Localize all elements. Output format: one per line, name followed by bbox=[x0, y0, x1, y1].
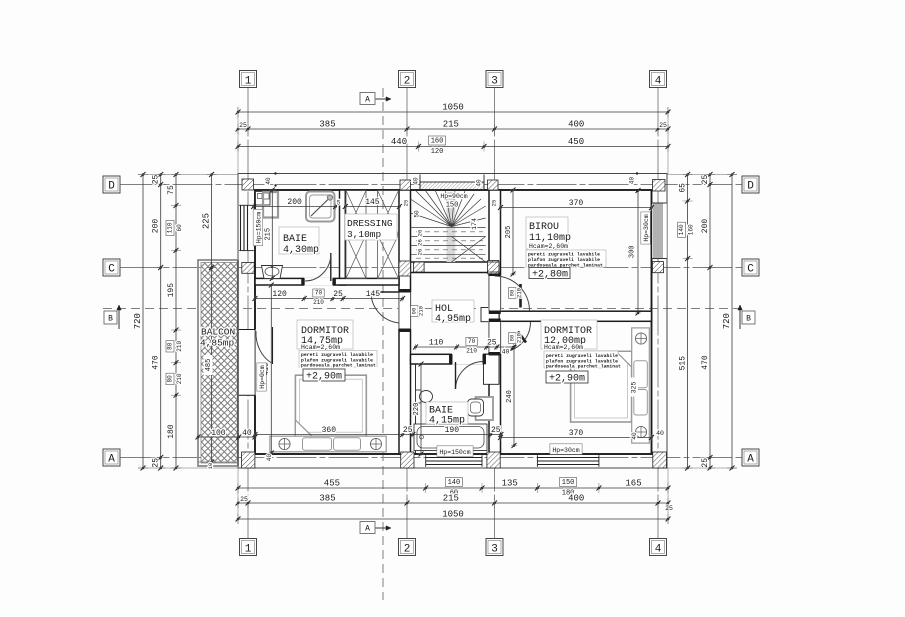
svg-text:26: 26 bbox=[417, 249, 424, 256]
svg-text:DRESSING: DRESSING bbox=[347, 218, 393, 229]
svg-text:140: 140 bbox=[448, 479, 461, 487]
svg-text:50: 50 bbox=[414, 210, 421, 218]
svg-text:40: 40 bbox=[265, 177, 272, 185]
svg-text:150: 150 bbox=[562, 479, 575, 487]
svg-text:220: 220 bbox=[413, 403, 421, 416]
svg-text:3: 3 bbox=[491, 76, 498, 88]
svg-text:25: 25 bbox=[701, 458, 710, 468]
svg-text:90: 90 bbox=[411, 308, 418, 315]
svg-text:BAIE: BAIE bbox=[283, 234, 307, 245]
svg-text:60: 60 bbox=[176, 224, 183, 232]
svg-text:400: 400 bbox=[568, 120, 584, 130]
svg-text:300: 300 bbox=[629, 245, 637, 258]
svg-text:75: 75 bbox=[167, 185, 176, 195]
svg-text:Hp=0cm: Hp=0cm bbox=[259, 365, 266, 389]
svg-text:215: 215 bbox=[264, 228, 272, 241]
svg-text:BIROU: BIROU bbox=[529, 222, 559, 233]
svg-text:470: 470 bbox=[701, 355, 710, 370]
svg-text:40: 40 bbox=[656, 430, 664, 437]
svg-text:470: 470 bbox=[152, 355, 161, 370]
svg-text:5: 5 bbox=[337, 200, 341, 207]
svg-text:110: 110 bbox=[167, 222, 174, 233]
svg-text:Hp=90cm: Hp=90cm bbox=[440, 193, 467, 200]
svg-text:165: 165 bbox=[625, 479, 641, 489]
svg-text:120: 120 bbox=[272, 290, 287, 299]
svg-text:Hp=150cm: Hp=150cm bbox=[256, 212, 263, 243]
svg-text:720: 720 bbox=[133, 313, 143, 329]
svg-text:145: 145 bbox=[365, 198, 380, 207]
svg-text:+2,90m: +2,90m bbox=[306, 372, 342, 383]
svg-text:370: 370 bbox=[569, 199, 584, 208]
svg-text:210: 210 bbox=[516, 333, 523, 343]
svg-text:120: 120 bbox=[431, 148, 444, 156]
svg-text:4: 4 bbox=[655, 76, 662, 88]
svg-text:plafon zugraveli lavabile: plafon zugraveli lavabile bbox=[546, 358, 618, 364]
svg-text:210: 210 bbox=[418, 306, 425, 316]
svg-text:Hcam=2,60m: Hcam=2,60m bbox=[529, 243, 568, 250]
svg-text:1: 1 bbox=[245, 544, 252, 556]
svg-text:25: 25 bbox=[665, 505, 673, 512]
svg-text:25: 25 bbox=[701, 175, 710, 185]
svg-text:80: 80 bbox=[509, 335, 516, 342]
svg-text:A: A bbox=[365, 525, 370, 534]
svg-text:110: 110 bbox=[429, 339, 444, 348]
svg-text:40: 40 bbox=[266, 454, 273, 462]
svg-text:210: 210 bbox=[516, 288, 523, 298]
svg-text:485: 485 bbox=[205, 359, 213, 372]
svg-text:160: 160 bbox=[431, 138, 444, 146]
svg-text:4: 4 bbox=[655, 544, 662, 556]
svg-text:25: 25 bbox=[240, 496, 248, 503]
svg-text:385: 385 bbox=[319, 120, 335, 130]
svg-text:2: 2 bbox=[404, 544, 411, 556]
svg-text:A: A bbox=[365, 96, 370, 105]
svg-text:3,10mp: 3,10mp bbox=[347, 229, 382, 240]
svg-text:+2,80m: +2,80m bbox=[532, 270, 568, 281]
svg-text:215: 215 bbox=[443, 494, 459, 504]
svg-text:400: 400 bbox=[568, 494, 584, 504]
svg-text:210: 210 bbox=[176, 341, 183, 352]
svg-text:plafon zugraveli lavabile: plafon zugraveli lavabile bbox=[528, 257, 600, 263]
svg-text:200: 200 bbox=[152, 219, 161, 234]
svg-text:D: D bbox=[747, 181, 754, 193]
svg-text:190: 190 bbox=[445, 426, 460, 435]
svg-text:210: 210 bbox=[313, 299, 324, 306]
svg-text:4,95mp: 4,95mp bbox=[435, 314, 471, 325]
svg-text:40: 40 bbox=[631, 432, 638, 440]
svg-text:Hp=30cm: Hp=30cm bbox=[552, 447, 579, 454]
svg-text:Hp=30cm: Hp=30cm bbox=[643, 214, 650, 241]
svg-text:Hcam=2,60m: Hcam=2,60m bbox=[544, 344, 583, 351]
svg-text:215: 215 bbox=[443, 120, 459, 130]
svg-text:40: 40 bbox=[242, 429, 252, 438]
svg-text:4,85mp: 4,85mp bbox=[200, 338, 235, 349]
svg-text:1050: 1050 bbox=[442, 510, 464, 520]
svg-text:+2,90m: +2,90m bbox=[549, 374, 585, 385]
svg-text:4,15mp: 4,15mp bbox=[429, 416, 465, 427]
svg-text:25: 25 bbox=[152, 175, 161, 185]
svg-text:pereti zugraveli lavabile: pereti zugraveli lavabile bbox=[301, 352, 373, 358]
svg-text:25: 25 bbox=[333, 290, 343, 299]
svg-text:B: B bbox=[108, 315, 113, 324]
svg-text:C: C bbox=[747, 264, 754, 276]
svg-text:80: 80 bbox=[509, 290, 516, 297]
svg-text:180: 180 bbox=[167, 424, 176, 439]
svg-text:195: 195 bbox=[167, 283, 176, 298]
svg-text:C: C bbox=[108, 264, 115, 276]
svg-text:25: 25 bbox=[403, 426, 413, 435]
svg-text:10: 10 bbox=[207, 463, 214, 470]
svg-text:720: 720 bbox=[722, 313, 732, 329]
svg-text:1050: 1050 bbox=[442, 103, 464, 113]
svg-text:Hp=150cm: Hp=150cm bbox=[439, 449, 470, 456]
svg-text:140: 140 bbox=[678, 224, 685, 235]
svg-text:225: 225 bbox=[202, 213, 212, 229]
svg-text:135: 135 bbox=[502, 479, 518, 489]
svg-text:70: 70 bbox=[315, 290, 323, 297]
svg-text:pardoseala parchet laminat: pardoseala parchet laminat bbox=[546, 364, 621, 370]
svg-text:plafon zugraveli lavabile: plafon zugraveli lavabile bbox=[301, 357, 373, 363]
svg-text:455: 455 bbox=[324, 479, 340, 489]
svg-text:3: 3 bbox=[491, 544, 498, 556]
svg-text:2: 2 bbox=[404, 76, 411, 88]
svg-text:174: 174 bbox=[471, 218, 478, 230]
svg-text:385: 385 bbox=[319, 494, 335, 504]
svg-text:210: 210 bbox=[176, 373, 183, 384]
svg-text:65: 65 bbox=[679, 183, 688, 193]
svg-text:80: 80 bbox=[167, 342, 174, 350]
svg-text:515: 515 bbox=[679, 356, 688, 371]
svg-text:25: 25 bbox=[659, 122, 667, 129]
svg-text:440: 440 bbox=[391, 137, 407, 147]
svg-text:150: 150 bbox=[446, 202, 459, 210]
svg-text:pereti zugraveli lavabile: pereti zugraveli lavabile bbox=[546, 353, 618, 359]
svg-text:70: 70 bbox=[468, 338, 476, 345]
svg-text:450: 450 bbox=[568, 137, 584, 147]
svg-text:26: 26 bbox=[417, 239, 424, 246]
svg-text:25: 25 bbox=[487, 339, 497, 348]
svg-text:40: 40 bbox=[476, 179, 483, 187]
svg-text:25: 25 bbox=[152, 458, 161, 468]
svg-text:D: D bbox=[108, 181, 115, 193]
svg-text:26: 26 bbox=[417, 230, 424, 237]
svg-text:240: 240 bbox=[506, 390, 514, 403]
svg-text:360: 360 bbox=[322, 426, 337, 435]
svg-text:40: 40 bbox=[413, 177, 420, 185]
svg-text:370: 370 bbox=[569, 429, 584, 438]
svg-text:210: 210 bbox=[466, 348, 477, 355]
svg-text:BALCON: BALCON bbox=[201, 327, 235, 338]
svg-text:A: A bbox=[747, 454, 754, 466]
svg-text:200: 200 bbox=[287, 198, 302, 207]
svg-text:40: 40 bbox=[629, 177, 636, 185]
svg-text:200: 200 bbox=[701, 219, 710, 234]
svg-text:325: 325 bbox=[631, 382, 638, 394]
svg-text:80: 80 bbox=[167, 375, 174, 383]
svg-text:pardoseala parchet laminat: pardoseala parchet laminat bbox=[301, 363, 376, 369]
svg-text:Hcam=2,60m: Hcam=2,60m bbox=[301, 344, 340, 351]
svg-text:40: 40 bbox=[502, 349, 510, 356]
svg-text:4,30mp: 4,30mp bbox=[283, 245, 319, 256]
svg-text:205: 205 bbox=[505, 226, 513, 239]
svg-text:25: 25 bbox=[239, 122, 247, 129]
svg-text:pereti zugraveli lavabile: pereti zugraveli lavabile bbox=[528, 252, 600, 258]
svg-text:25: 25 bbox=[491, 200, 498, 207]
svg-text:B: B bbox=[746, 315, 751, 324]
svg-text:25: 25 bbox=[491, 426, 501, 435]
svg-text:A: A bbox=[108, 454, 115, 466]
svg-text:145: 145 bbox=[366, 290, 381, 299]
svg-text:25: 25 bbox=[403, 200, 410, 207]
svg-text:160: 160 bbox=[688, 224, 695, 235]
svg-text:1: 1 bbox=[245, 76, 252, 88]
svg-text:100: 100 bbox=[211, 429, 226, 438]
